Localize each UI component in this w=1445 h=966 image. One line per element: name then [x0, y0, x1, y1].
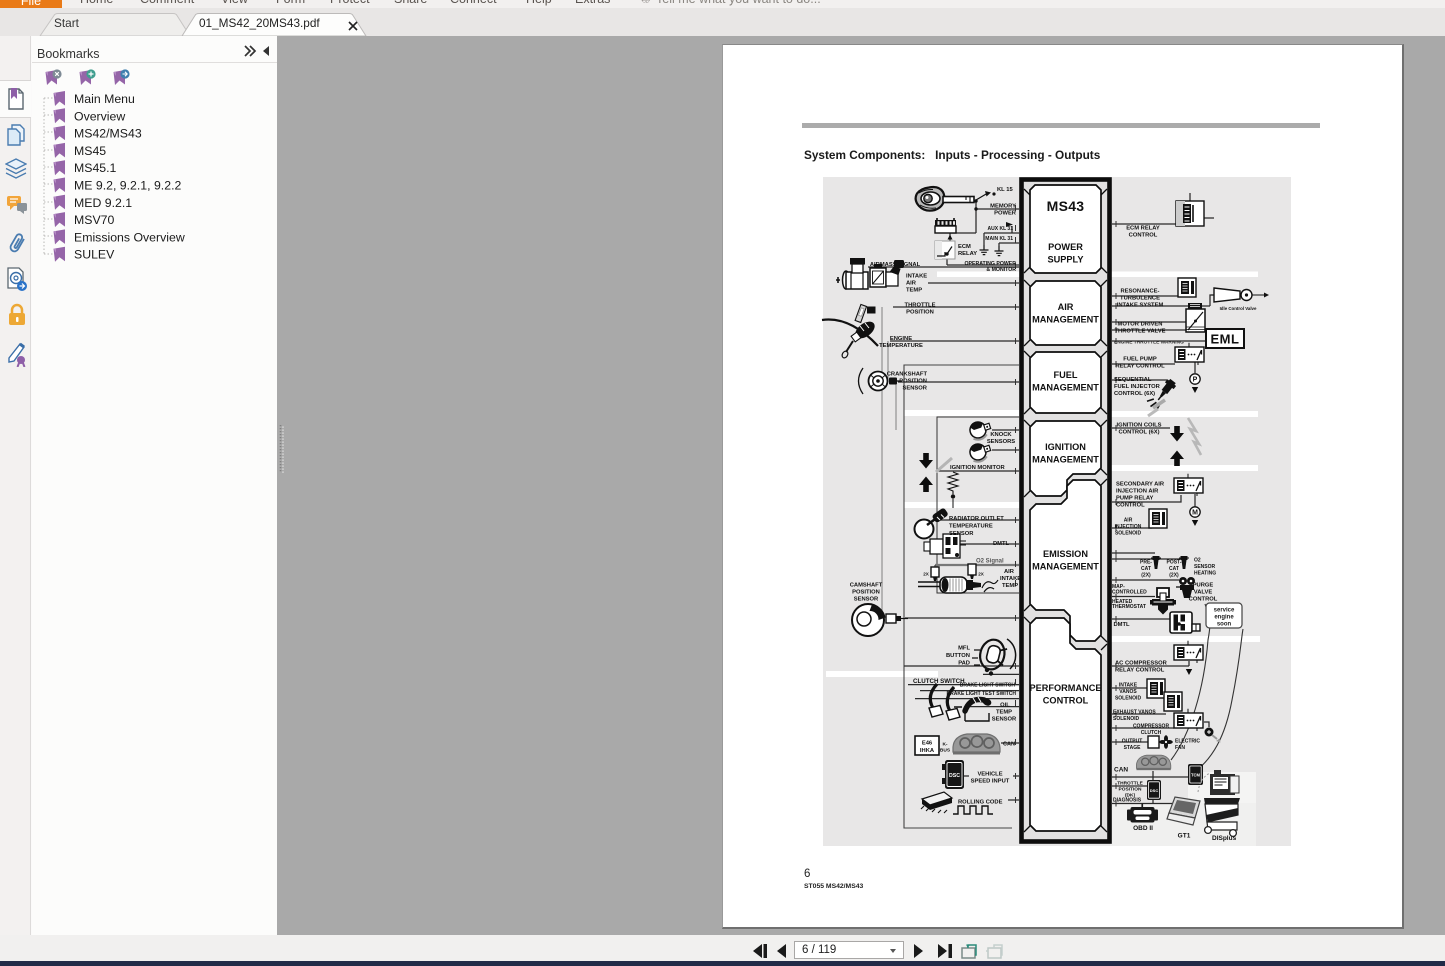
svg-text:INTAKE SYSTEM: INTAKE SYSTEM — [1117, 303, 1164, 309]
svg-text:MS45.1: MS45.1 — [74, 161, 117, 175]
svg-text:AIR: AIR — [1124, 518, 1133, 524]
svg-text:THROTTLE VALVE: THROTTLE VALVE — [1115, 329, 1166, 335]
svg-text:POST-: POST- — [1166, 560, 1181, 566]
svg-text:ENGINE THROTTLE WARNING: ENGINE THROTTLE WARNING — [1114, 340, 1184, 346]
svg-text:RADIATOR OUTLET: RADIATOR OUTLET — [949, 516, 1004, 522]
svg-text:MS43: MS43 — [1047, 198, 1085, 214]
svg-text:CAN: CAN — [1114, 767, 1128, 774]
svg-text:FAN: FAN — [1175, 745, 1185, 751]
svg-text:CONTROLLED: CONTROLLED — [1112, 590, 1147, 596]
svg-text:2X: 2X — [978, 572, 985, 577]
svg-text:ST055 MS42/MS43: ST055 MS42/MS43 — [804, 883, 864, 890]
svg-text:SOLENOID: SOLENOID — [1115, 531, 1142, 537]
svg-text:engine: engine — [1214, 615, 1234, 621]
svg-text:MANAGEMENT: MANAGEMENT — [1032, 383, 1099, 393]
svg-text:SUPPLY: SUPPLY — [1048, 255, 1084, 265]
svg-text:PURGE: PURGE — [1193, 583, 1214, 589]
svg-text:MS42/MS43: MS42/MS43 — [74, 127, 142, 141]
svg-text:ROLLING CODE: ROLLING CODE — [958, 800, 1003, 806]
svg-text:BRAKE LIGHT TEST SWITCH: BRAKE LIGHT TEST SWITCH — [947, 691, 1017, 697]
svg-text:SECONDARY AIR: SECONDARY AIR — [1116, 482, 1165, 488]
svg-text:INJECTION AIR: INJECTION AIR — [1116, 489, 1159, 495]
svg-text:CRANKSHAFT: CRANKSHAFT — [887, 372, 928, 378]
svg-text:CAT: CAT — [1169, 566, 1179, 572]
svg-text:KNOCK: KNOCK — [990, 432, 1012, 438]
svg-text:FUEL INJECTOR: FUEL INJECTOR — [1114, 384, 1161, 390]
svg-text:BUS: BUS — [940, 748, 951, 754]
svg-text:STAGE: STAGE — [1124, 745, 1142, 751]
svg-text:Idle Control Valve: Idle Control Valve — [1220, 306, 1257, 311]
svg-text:MANAGEMENT: MANAGEMENT — [1032, 562, 1099, 572]
svg-text:CONTROL (6X): CONTROL (6X) — [1114, 391, 1155, 397]
svg-text:OBD II: OBD II — [1133, 825, 1153, 832]
svg-text:INJECTION: INJECTION — [1115, 524, 1142, 530]
svg-text:THERMOSTAT: THERMOSTAT — [1112, 604, 1146, 610]
svg-text:INTAKE: INTAKE — [906, 274, 927, 280]
svg-text:E46: E46 — [922, 741, 933, 747]
svg-text:ELECTRIC: ELECTRIC — [1175, 739, 1200, 745]
svg-text:OUTPUT: OUTPUT — [1122, 739, 1143, 745]
svg-text:CLUTCH: CLUTCH — [1141, 730, 1162, 736]
svg-text:O2 Signal: O2 Signal — [976, 559, 1004, 565]
svg-text:VANOS: VANOS — [1119, 689, 1137, 695]
svg-text:RELAY CONTROL: RELAY CONTROL — [1115, 364, 1165, 370]
svg-text:MED 9.2.1: MED 9.2.1 — [74, 196, 132, 210]
svg-text:SENSOR: SENSOR — [903, 386, 928, 392]
svg-text:THROTTLE: THROTTLE — [1117, 781, 1143, 787]
svg-text:VALVE: VALVE — [1194, 590, 1213, 596]
svg-text:VEHICLE: VEHICLE — [977, 772, 1002, 778]
svg-text:TEMP: TEMP — [1002, 583, 1018, 589]
svg-text:PAD: PAD — [958, 661, 970, 667]
svg-text:MEMORY: MEMORY — [990, 204, 1016, 210]
svg-text:POSITION: POSITION — [1119, 787, 1142, 793]
svg-text:POSITION: POSITION — [852, 590, 880, 596]
svg-text:INTAKE: INTAKE — [1000, 576, 1021, 582]
svg-text:FUEL PUMP: FUEL PUMP — [1123, 357, 1157, 363]
svg-text:MOTOR DRIVEN: MOTOR DRIVEN — [1118, 322, 1163, 328]
svg-text:AIRMASS SIGNAL: AIRMASS SIGNAL — [870, 262, 921, 268]
svg-text:RELAY: RELAY — [958, 251, 977, 257]
svg-text:CAT: CAT — [1141, 566, 1151, 572]
svg-text:MAIN KL 31: MAIN KL 31 — [985, 236, 1013, 242]
svg-text:BUTTON: BUTTON — [946, 653, 970, 659]
svg-text:Emissions Overview: Emissions Overview — [74, 230, 185, 244]
svg-text:soon: soon — [1217, 622, 1232, 628]
svg-text:& MONITOR: & MONITOR — [986, 267, 1016, 273]
svg-text:ECM RELAY: ECM RELAY — [1126, 226, 1160, 232]
svg-text:POSITION: POSITION — [906, 310, 934, 316]
svg-text:DMTL: DMTL — [993, 541, 1010, 547]
svg-text:P: P — [1193, 377, 1198, 384]
svg-text:AC COMPRESSOR: AC COMPRESSOR — [1115, 661, 1168, 667]
svg-text:service: service — [1214, 608, 1235, 614]
svg-text:RESONANCE-: RESONANCE- — [1121, 289, 1160, 295]
svg-text:MANAGEMENT: MANAGEMENT — [1032, 455, 1099, 465]
svg-text:POWER: POWER — [994, 211, 1017, 217]
svg-text:CLUTCH SWITCH: CLUTCH SWITCH — [913, 678, 965, 685]
svg-text:POSITION: POSITION — [899, 379, 927, 385]
svg-text:BRAKE LIGHT SWITCH: BRAKE LIGHT SWITCH — [960, 683, 1016, 689]
svg-text:CONTROL (6X): CONTROL (6X) — [1118, 430, 1159, 436]
svg-text:CAMSHAFT: CAMSHAFT — [850, 583, 883, 589]
svg-text:TEMP: TEMP — [996, 710, 1012, 716]
svg-text:System Components: Inputs -: System Components: Inputs - Processing -… — [804, 148, 1101, 162]
svg-text:THROTTLE: THROTTLE — [905, 303, 936, 309]
svg-text:ME 9.2, 9.2.1, 9.2.2: ME 9.2, 9.2.1, 9.2.2 — [74, 179, 181, 193]
svg-text:6: 6 — [804, 868, 810, 880]
svg-text:PRE-: PRE- — [1140, 560, 1152, 566]
svg-text:GT1: GT1 — [1178, 833, 1191, 840]
svg-text:INTAKE: INTAKE — [1119, 683, 1138, 689]
svg-text:SPEED INPUT: SPEED INPUT — [971, 779, 1010, 785]
svg-text:RELAY CONTROL: RELAY CONTROL — [1115, 668, 1165, 674]
svg-text:K-: K- — [942, 742, 947, 748]
svg-text:SENSOR: SENSOR — [854, 597, 879, 603]
svg-text:PUMP RELAY: PUMP RELAY — [1116, 496, 1154, 502]
svg-text:MANAGEMENT: MANAGEMENT — [1032, 315, 1099, 325]
svg-text:DIAGNOSIS: DIAGNOSIS — [1113, 798, 1142, 804]
svg-text:ECM: ECM — [958, 244, 971, 250]
svg-text:CONTROL: CONTROL — [1129, 233, 1158, 239]
svg-text:DSC: DSC — [1150, 788, 1159, 793]
svg-text:SENSOR: SENSOR — [949, 531, 974, 537]
svg-text:TEMPERATURE: TEMPERATURE — [879, 343, 923, 349]
svg-text:TEMP: TEMP — [906, 288, 922, 294]
svg-text:SENSOR: SENSOR — [1194, 564, 1216, 570]
svg-text:OIL: OIL — [1000, 702, 1010, 708]
svg-text:MFL: MFL — [958, 646, 970, 652]
svg-text:EXHAUST VANOS: EXHAUST VANOS — [1113, 710, 1156, 716]
svg-text:MSV70: MSV70 — [74, 213, 114, 227]
svg-text:IHKA: IHKA — [920, 748, 935, 754]
svg-text:IGNITION: IGNITION — [1045, 442, 1086, 452]
svg-text:DISplus: DISplus — [1212, 835, 1237, 842]
svg-text:FUEL: FUEL — [1054, 370, 1078, 380]
svg-text:POWER: POWER — [1048, 242, 1083, 252]
svg-text:SOLENOID: SOLENOID — [1115, 696, 1142, 702]
svg-text:Main Menu: Main Menu — [74, 92, 135, 106]
svg-text:M: M — [1192, 510, 1198, 517]
svg-text:KL 15: KL 15 — [997, 187, 1013, 193]
svg-text:(2X): (2X) — [1169, 573, 1179, 579]
svg-text:CONTROL: CONTROL — [1116, 503, 1145, 509]
svg-text:COMPRESSOR: COMPRESSOR — [1133, 724, 1170, 730]
svg-text:ENGINE: ENGINE — [890, 336, 912, 342]
svg-text:AIR: AIR — [1058, 302, 1074, 312]
svg-text:EML: EML — [1211, 332, 1240, 347]
svg-text:TURBULENCE: TURBULENCE — [1120, 296, 1160, 302]
svg-text:IGNITION MONITOR: IGNITION MONITOR — [950, 465, 1005, 471]
svg-text:DMTL: DMTL — [1114, 622, 1131, 628]
svg-text:SENSOR: SENSOR — [992, 717, 1017, 723]
svg-text:2X: 2X — [923, 572, 930, 577]
svg-text:AIR: AIR — [1004, 569, 1015, 575]
svg-text:IGNITION COILS: IGNITION COILS — [1116, 423, 1161, 429]
svg-text:CAN: CAN — [1003, 742, 1015, 748]
svg-text:DSC: DSC — [949, 773, 960, 779]
svg-text:Overview: Overview — [74, 109, 125, 123]
svg-text:TCM: TCM — [1191, 773, 1201, 778]
svg-text:SENSORS: SENSORS — [987, 439, 1015, 445]
svg-text:CONTROL: CONTROL — [1043, 696, 1089, 706]
svg-text:SULEV: SULEV — [74, 248, 115, 262]
svg-text:AIR: AIR — [906, 281, 917, 287]
svg-text:MS45: MS45 — [74, 144, 106, 158]
svg-text:EMISSION: EMISSION — [1043, 549, 1088, 559]
svg-text:SEQUENTIAL: SEQUENTIAL — [1114, 377, 1152, 383]
svg-text:O2: O2 — [1194, 558, 1201, 564]
svg-text:TEMPERATURE: TEMPERATURE — [949, 524, 993, 530]
svg-text:AUX KL 31: AUX KL 31 — [988, 226, 1014, 232]
svg-text:PERFORMANCE: PERFORMANCE — [1030, 683, 1102, 693]
svg-text:HEATING: HEATING — [1194, 571, 1216, 577]
svg-text:CONTROL: CONTROL — [1189, 597, 1218, 603]
svg-text:(2X): (2X) — [1141, 573, 1151, 579]
svg-text:SOLENOID: SOLENOID — [1113, 716, 1140, 722]
